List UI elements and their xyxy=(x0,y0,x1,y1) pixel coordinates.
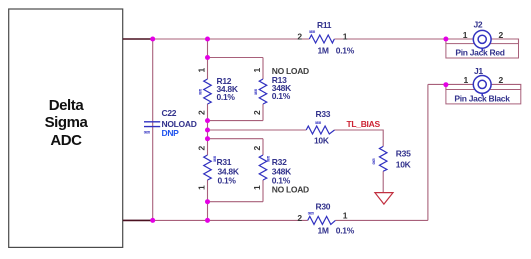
svg-text:1M: 1M xyxy=(318,45,329,55)
svg-text:1: 1 xyxy=(252,68,262,73)
labels R31 xyxy=(197,146,240,191)
svg-text:J2: J2 xyxy=(474,19,483,29)
wire J2 port stub xyxy=(445,39,447,44)
svg-text:0805: 0805 xyxy=(309,30,315,34)
capacitor C22 plates xyxy=(144,122,160,127)
svg-text:Sigma: Sigma xyxy=(45,114,89,131)
svg-text:0.1%: 0.1% xyxy=(218,175,237,185)
labels R30 xyxy=(297,202,354,236)
node J2 branch xyxy=(443,37,448,42)
node rail3 xyxy=(205,128,210,133)
svg-text:R30: R30 xyxy=(316,202,331,212)
svg-text:2: 2 xyxy=(297,32,302,42)
svg-text:2: 2 xyxy=(197,146,207,151)
wire rail3 y=130 to R33 xyxy=(208,129,307,131)
svg-text:0805: 0805 xyxy=(267,156,271,162)
wire rail5 y=201.7 xyxy=(208,201,264,203)
svg-text:1: 1 xyxy=(197,185,207,190)
node bottom B xyxy=(205,218,210,223)
hierarchical block Delta Sigma ADC xyxy=(9,9,123,247)
wire R32 column xyxy=(262,139,264,155)
svg-text:ADC: ADC xyxy=(50,132,82,149)
wire rail2 y=120.6 xyxy=(208,120,264,122)
svg-text:0805: 0805 xyxy=(372,158,376,164)
resistor R30 body xyxy=(308,216,336,224)
svg-text:0805: 0805 xyxy=(254,89,258,95)
svg-text:R11: R11 xyxy=(317,20,332,30)
labels R12 xyxy=(197,68,239,116)
wire J1 pin2 to port box xyxy=(491,84,521,89)
svg-text:0.1%: 0.1% xyxy=(336,225,355,235)
labels R35 xyxy=(372,149,412,170)
svg-text:1: 1 xyxy=(463,30,468,40)
labels R11 xyxy=(297,20,354,55)
ground symbol xyxy=(375,193,393,205)
labels R32 xyxy=(252,146,309,195)
labels R13 xyxy=(252,66,309,115)
resistor R35 body xyxy=(379,146,387,171)
svg-text:0.1%: 0.1% xyxy=(336,45,355,55)
svg-text:TL_BIAS: TL_BIAS xyxy=(347,119,381,129)
resistor R13 body xyxy=(259,79,267,104)
wire J1 port stub xyxy=(445,84,447,89)
svg-text:DNP: DNP xyxy=(162,128,180,138)
svg-text:0805: 0805 xyxy=(144,131,150,135)
connector J1 circle xyxy=(473,76,491,97)
resistor R11 body xyxy=(309,35,334,43)
svg-text:Delta: Delta xyxy=(49,97,85,114)
svg-text:1: 1 xyxy=(343,211,348,221)
port box Pin Jack Red xyxy=(446,44,519,58)
wire J2 pin2 to port box xyxy=(491,39,519,44)
labels J1 xyxy=(464,66,504,85)
labels J2 xyxy=(463,19,504,40)
resistor R12 body xyxy=(204,79,212,104)
wire vertical B x=207.5 xyxy=(207,39,209,79)
labels C22 xyxy=(144,108,197,138)
svg-text:R32: R32 xyxy=(272,157,287,167)
node rail2 xyxy=(205,118,210,123)
svg-text:2: 2 xyxy=(197,110,207,115)
svg-text:0805: 0805 xyxy=(315,121,321,125)
port stub dark bottom xyxy=(123,219,153,221)
svg-text:1: 1 xyxy=(464,75,469,85)
svg-text:Pin Jack Red: Pin Jack Red xyxy=(455,48,504,58)
resistor R32 body xyxy=(259,155,267,180)
resistor R33 body xyxy=(306,126,334,134)
wire top net y=39 xyxy=(123,39,521,220)
svg-text:0805: 0805 xyxy=(199,89,203,95)
svg-text:R33: R33 xyxy=(316,109,331,119)
svg-text:NO LOAD: NO LOAD xyxy=(272,185,309,195)
node J1 branch xyxy=(443,82,448,87)
svg-text:J1: J1 xyxy=(474,66,483,76)
connector J2 circle xyxy=(473,30,491,51)
svg-text:C22: C22 xyxy=(162,108,177,118)
resistor R31 body xyxy=(204,155,212,180)
svg-text:1: 1 xyxy=(252,185,262,190)
svg-text:0.1%: 0.1% xyxy=(272,91,291,101)
node bottom A xyxy=(150,218,155,223)
svg-text:2: 2 xyxy=(499,75,504,85)
svg-text:1: 1 xyxy=(343,32,348,42)
svg-text:1: 1 xyxy=(197,68,207,73)
wire right vertical J1 to bottom xyxy=(427,84,429,220)
node rail1 xyxy=(205,55,210,60)
svg-text:R31: R31 xyxy=(217,157,232,167)
svg-text:10K: 10K xyxy=(314,135,330,145)
svg-text:1M: 1M xyxy=(318,225,329,235)
svg-text:0.1%: 0.1% xyxy=(217,92,236,102)
port box Pin Jack Black xyxy=(446,90,521,104)
svg-text:2: 2 xyxy=(499,30,504,40)
svg-text:2: 2 xyxy=(297,213,302,223)
node rail4 xyxy=(205,136,210,141)
wire rail4 y=138.7 xyxy=(208,138,264,140)
wire vertical A x=152.7 (C22 branch) xyxy=(152,39,154,220)
svg-text:2: 2 xyxy=(252,146,262,151)
labels R33 xyxy=(314,109,331,145)
wire R33 to TL_BIAS corner xyxy=(335,130,384,146)
svg-text:10K: 10K xyxy=(396,160,412,170)
port stub dark top xyxy=(123,38,153,40)
wire J1 row y=84.7 xyxy=(428,83,473,85)
wire bottom net y=220.4 xyxy=(123,219,308,221)
wire R35 bottom to ground xyxy=(382,171,384,192)
node rail5 xyxy=(205,199,210,204)
svg-text:0805: 0805 xyxy=(213,156,217,162)
wire rail1 y=57.5 xyxy=(208,57,264,59)
node top A xyxy=(150,37,155,42)
svg-text:0805: 0805 xyxy=(308,211,314,215)
svg-text:2: 2 xyxy=(252,110,262,115)
node top B xyxy=(205,37,210,42)
wire R13 column xyxy=(262,58,264,80)
svg-text:R35: R35 xyxy=(396,149,411,159)
